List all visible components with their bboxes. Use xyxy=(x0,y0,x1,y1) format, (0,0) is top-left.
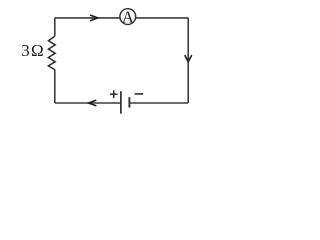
battery BT1 negative plate (short) xyxy=(128,97,130,108)
battery BT1 positive plate (long) xyxy=(120,91,122,113)
battery plus label xyxy=(110,90,118,98)
wire: right side (top-right corner down to bottom-right corner) xyxy=(187,18,189,103)
wire: left side top segment (top-left corner down to resistor) xyxy=(54,18,56,36)
ammeter U1 circle xyxy=(120,9,136,25)
wire: top side (left corner to right corner) xyxy=(55,17,188,19)
current arrow on right wire (pointing down) xyxy=(185,56,192,62)
wire: left side bottom segment (resistor down to bottom-left corner) xyxy=(54,70,56,103)
current arrow on bottom wire (pointing left) xyxy=(89,100,96,105)
svg-text:A: A xyxy=(122,7,134,26)
battery minus label xyxy=(135,93,144,95)
wire: bottom side right segment (battery - plate to bottom-right corner) xyxy=(129,102,188,104)
wire: bottom side left segment (bottom-left corner to battery + plate) xyxy=(55,102,121,104)
current arrow on top wire (pointing right) xyxy=(91,15,98,20)
svg-text:3Ω: 3Ω xyxy=(21,41,43,60)
resistor R1 zigzag xyxy=(48,36,55,69)
